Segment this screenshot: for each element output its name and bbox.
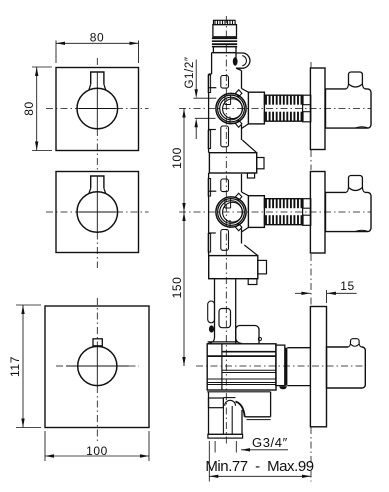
cartridge slot station 1 (top) [224, 94, 226, 104]
handle station 1 (top) [326, 89, 372, 128]
handle knob station 3 [351, 339, 360, 343]
valve body vertical centerline [225, 16, 227, 445]
body right edge station 1 (top) [241, 125, 243, 140]
body shoulder [211, 53, 213, 74]
bottom inlet pipe (G3/4) [209, 398, 224, 408]
body right edge station 2 (middle) [241, 229, 243, 244]
centerline station 3 [196, 365, 366, 367]
cartridge boss shoulders station 2 (middle) [209, 190, 217, 192]
plate 3 (100x117 escutcheon, front view) [45, 306, 149, 428]
mounting flange on mixer top [236, 326, 259, 345]
dimension 100 (station spacing) [183, 109, 185, 213]
wall plane centerline (vertical dash-dot) [310, 62, 312, 69]
left rib slots station 2 (middle) [208, 179, 210, 197]
body column left edge (middle) [208, 173, 210, 256]
svg-text:150: 150 [170, 277, 184, 299]
limit stop tabs station 1 (top) [236, 90, 242, 97]
inner slots station 2 (middle) [221, 179, 229, 192]
threaded connection station 1 (top) [264, 94, 303, 96]
dimension 117 (left height of plate 3) [16, 304, 41, 306]
inner slots station 1 (top) [221, 76, 229, 89]
plate 1 (80x80 escutcheon, front view) [56, 68, 139, 151]
neck below spigot [213, 47, 236, 53]
outlet stub to wall [276, 345, 285, 386]
dimension G1/2 arrows [195, 60, 197, 95]
centerline station 2 (middle) [179, 211, 372, 213]
svg-text:100: 100 [170, 147, 184, 169]
wall escutcheon bar station 2 (middle) [310, 172, 325, 254]
svg-text:G3/4″: G3/4″ [252, 435, 288, 450]
handle knob station 1 (top) [349, 72, 363, 84]
limit stop tabs station 2 (middle) [236, 193, 242, 200]
dimension 80 (top width of plate 1) [55, 41, 57, 64]
svg-text:Min.77 - Max.99: Min.77 - Max.99 [205, 458, 313, 475]
wall escutcheon bar station 3 [310, 307, 326, 427]
cartridge boss shoulders station 1 (top) [209, 87, 217, 89]
top spigot groove rings [212, 37, 237, 39]
centerline station 1 (top) [179, 108, 372, 110]
centerlines plate 1 [79, 108, 116, 110]
inlet block between stations 2-3 [209, 256, 258, 279]
cartridge inner circle station 2 (middle) [220, 201, 243, 224]
cartridge outer circle station 2 (middle) [216, 197, 246, 227]
left capsule slot on lower column [208, 301, 215, 323]
handle knob station 2 (middle) [349, 176, 363, 188]
connection nut station 2 (middle) [248, 196, 264, 228]
wall escutcheon bar station 1 (top) [310, 68, 325, 150]
svg-text:G1/2″: G1/2″ [184, 56, 196, 88]
mixer lower block and spout underside [207, 391, 270, 393]
nut chamfers station 2 (middle) [242, 192, 249, 196]
spindle adapter station 2 (middle) [303, 199, 311, 226]
spindle adapter station 1 (top) [303, 95, 311, 122]
centerlines plate 2 [79, 211, 116, 213]
mixer body outline [207, 344, 276, 390]
cartridge inner circle station 1 (top) [220, 97, 243, 120]
dimension 100 (bottom width of plate 3) [44, 431, 46, 461]
handle station 3 [327, 347, 366, 388]
svg-text:80: 80 [22, 101, 36, 116]
lower column to mixer body [214, 279, 216, 338]
inlet block between stations 1-2 [209, 153, 256, 173]
centerlines plate 3 [66, 365, 129, 367]
svg-text:15: 15 [340, 279, 355, 293]
nut chamfers station 1 (top) [242, 89, 249, 93]
svg-text:80: 80 [90, 30, 105, 44]
cartridge outer circle station 1 (top) [216, 93, 246, 123]
connection nut station 1 (top) [248, 92, 264, 124]
left rib slots station 1 (top) [208, 75, 210, 93]
top inlet spigot thread cap [214, 20, 236, 24]
plate 2 (80x80 escutcheon, front view) [56, 172, 139, 253]
handle station 2 (middle) [326, 192, 372, 231]
dimension 80 (left height of plate 1) [32, 66, 52, 68]
dimension 150 (station spacing) [183, 212, 185, 366]
cartridge inner offset circle station 2 (middle) [223, 202, 243, 222]
body column left edge (top) [208, 74, 210, 153]
inner slot on lower column [219, 309, 231, 328]
cartridge inner offset circle station 1 (top) [223, 99, 243, 119]
svg-text:100: 100 [86, 444, 108, 458]
svg-text:117: 117 [8, 356, 22, 377]
mixer body horizontal lines [222, 351, 276, 353]
cartridge slot station 2 (middle) [224, 198, 226, 208]
right boss (non-return valve housing) [236, 53, 250, 68]
top inlet spigot body [213, 25, 237, 37]
cartridge middle circle station 2 (middle) [218, 199, 245, 226]
threaded connection station 2 (middle) [264, 198, 303, 200]
cartridge middle circle station 1 (top) [218, 95, 245, 122]
